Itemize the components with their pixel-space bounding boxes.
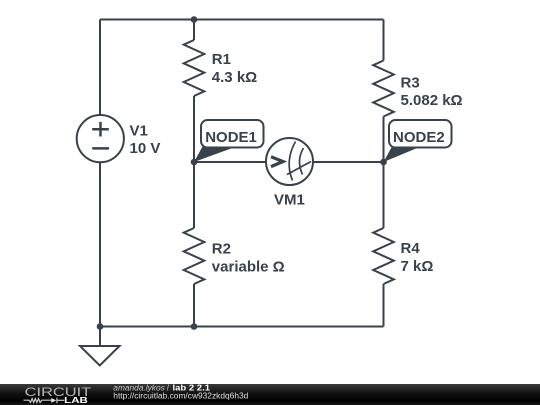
svg-text:R4: R4 xyxy=(401,240,421,257)
svg-text:7 kΩ: 7 kΩ xyxy=(401,258,434,275)
svg-text:V1: V1 xyxy=(130,123,148,140)
svg-text:R1: R1 xyxy=(212,51,231,68)
svg-text:variable Ω: variable Ω xyxy=(212,259,285,276)
svg-text:R3: R3 xyxy=(401,75,420,92)
svg-text:R2: R2 xyxy=(212,241,231,258)
svg-text:LAB: LAB xyxy=(64,396,88,405)
svg-text:http://circuitlab.com/cw932zkd: http://circuitlab.com/cw932zkdq6h3d xyxy=(113,391,248,400)
svg-text:10 V: 10 V xyxy=(130,140,161,157)
svg-text:4.3 kΩ: 4.3 kΩ xyxy=(212,69,257,86)
svg-text:NODE1: NODE1 xyxy=(205,129,257,146)
svg-text:VM1: VM1 xyxy=(274,192,305,209)
svg-text:NODE2: NODE2 xyxy=(393,129,445,146)
svg-text:5.082 kΩ: 5.082 kΩ xyxy=(401,92,463,109)
